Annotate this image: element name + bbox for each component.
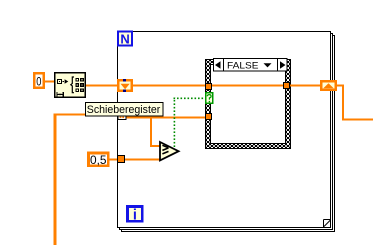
svg-text:0: 0	[36, 76, 41, 88]
svg-text:Schieberegister: Schieberegister	[87, 104, 161, 116]
svg-text:N: N	[120, 32, 129, 47]
svg-text:0,5: 0,5	[90, 155, 107, 167]
svg-text:FALSE: FALSE	[227, 60, 259, 71]
svg-text:i: i	[133, 207, 137, 223]
